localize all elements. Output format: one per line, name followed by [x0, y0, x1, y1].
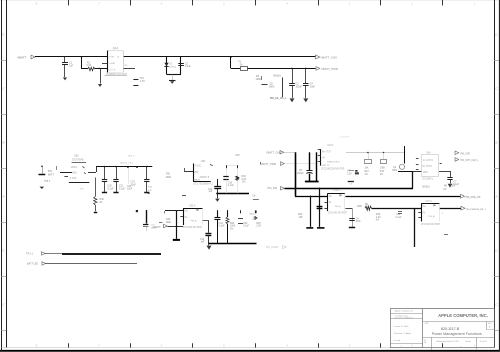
- svg-text:0.1uF: 0.1uF: [185, 66, 191, 68]
- svg-text:2K: 2K: [100, 201, 103, 204]
- svg-text:100uF: 100uF: [296, 86, 303, 88]
- svg-text:0.1uF: 0.1uF: [108, 188, 114, 190]
- svg-text:PWRON R 3: PWRON R 3: [327, 162, 340, 164]
- svg-text:U34: U34: [426, 151, 431, 154]
- svg-text:100K: 100K: [380, 168, 386, 170]
- svg-text:V+ OUT 8: V+ OUT 8: [423, 160, 434, 162]
- svg-text:10uF: 10uF: [355, 221, 361, 223]
- svg-text:0.1uF: 0.1uF: [243, 226, 249, 228]
- svg-text:LTC1540 NO POP: LTC1540 NO POP: [421, 224, 440, 226]
- svg-text:100K: 100K: [450, 186, 456, 188]
- svg-text:TP6 1: TP6 1: [44, 181, 51, 183]
- svg-text:Wednesday, May 26, 1999: Wednesday, May 26, 1999: [436, 341, 458, 343]
- svg-text:820-1117-B: 820-1117-B: [441, 327, 460, 331]
- svg-text:U36 A: U36 A: [334, 189, 341, 192]
- svg-text:10uF: 10uF: [127, 189, 133, 191]
- svg-text:1%: 1%: [380, 174, 383, 176]
- svg-text:PM_DIS: PM_DIS: [268, 186, 278, 190]
- svg-text:1uF: 1uF: [69, 64, 74, 67]
- svg-text:100K: 100K: [166, 176, 172, 179]
- svg-text:100K: 100K: [256, 78, 262, 81]
- svg-text:10K: 10K: [299, 216, 304, 219]
- svg-text:R45: R45: [256, 223, 261, 225]
- svg-text:VBATT_FILT: VBATT_FILT: [120, 162, 134, 165]
- svg-text:2.2K: 2.2K: [347, 173, 352, 175]
- svg-text:PM_AC_OK_L: PM_AC_OK_L: [270, 97, 287, 100]
- svg-text:U31: U31: [201, 160, 206, 163]
- svg-text:1uF: 1uF: [209, 191, 214, 193]
- svg-text:PM_OVP: PM_OVP: [461, 153, 471, 155]
- svg-text:A: A: [2, 195, 4, 199]
- svg-text:8 of 14: 8 of 14: [480, 341, 487, 343]
- svg-text:C10: C10: [396, 214, 401, 216]
- svg-text:1%: 1%: [376, 220, 379, 222]
- svg-text:BAS21: BAS21: [250, 213, 258, 216]
- svg-text:Apple Computer, Inc.: Apple Computer, Inc.: [395, 309, 414, 312]
- svg-text:C20: C20: [108, 186, 113, 188]
- svg-text:SHDN: SHDN: [194, 180, 201, 182]
- svg-text:A: A: [495, 195, 497, 199]
- svg-text:IN+ OUT: IN+ OUT: [322, 151, 332, 153]
- svg-text:C41: C41: [219, 223, 224, 225]
- svg-text:LTC1540 NO POP: LTC1540 NO POP: [183, 227, 202, 229]
- svg-text:IN-: IN-: [322, 158, 325, 160]
- svg-text:2.2K: 2.2K: [376, 217, 381, 219]
- svg-text:DS2760AE: DS2760AE: [72, 159, 84, 162]
- svg-text:IN-: IN-: [423, 212, 426, 214]
- svg-text:U37 A: U37 A: [426, 200, 433, 203]
- svg-text:10uF: 10uF: [131, 184, 137, 186]
- svg-text:1uF: 1uF: [201, 242, 206, 244]
- svg-text:BAS16: BAS16: [274, 75, 282, 78]
- svg-text:VBATT_CHG: VBATT_CHG: [321, 56, 338, 60]
- svg-text:VBATT: VBATT: [17, 56, 27, 60]
- svg-text:BATT LED: BATT LED: [27, 263, 38, 266]
- svg-text:IN- HYST: IN- HYST: [422, 166, 432, 168]
- svg-text:R12: R12: [365, 171, 370, 173]
- svg-text:0.1uF: 0.1uF: [228, 185, 234, 187]
- svg-text:IN-: IN-: [329, 202, 332, 204]
- svg-text:Checked: T. Apple: Checked: T. Apple: [394, 332, 412, 335]
- svg-text:U33 1: U33 1: [327, 145, 334, 147]
- svg-text:GND TP: GND TP: [321, 165, 330, 167]
- svg-text:VBATT_PWR: VBATT_PWR: [261, 162, 277, 166]
- svg-text:C21: C21: [119, 186, 124, 188]
- svg-text:C42: C42: [243, 223, 248, 225]
- svg-text:PM_CHG_OK: PM_CHG_OK: [466, 196, 481, 199]
- svg-text:3904: 3904: [392, 170, 398, 172]
- svg-text:1%: 1%: [252, 218, 255, 220]
- svg-text:C33: C33: [228, 182, 233, 184]
- svg-text:1%: 1%: [242, 181, 245, 183]
- svg-text:TP7 1: TP7 1: [128, 156, 135, 158]
- svg-text:PM_A: PM_A: [335, 205, 341, 208]
- svg-text:100uF: 100uF: [297, 173, 304, 175]
- svg-text:1%: 1%: [365, 174, 368, 176]
- svg-text:10K: 10K: [365, 168, 370, 170]
- svg-text:8 VSS: 8 VSS: [70, 178, 77, 180]
- svg-text:Cupertino, CA 95014: Cupertino, CA 95014: [394, 317, 413, 320]
- svg-text:VDD 1: VDD 1: [71, 167, 78, 169]
- svg-text:APPLE COMPUTER, INC.: APPLE COMPUTER, INC.: [438, 313, 488, 318]
- svg-text:1N5817 8: 1N5817 8: [199, 177, 210, 179]
- svg-text:0.1uF: 0.1uF: [219, 226, 225, 228]
- svg-text:C34 10uF: C34 10uF: [340, 137, 350, 139]
- svg-text:LTC1442 NO POP: LTC1442 NO POP: [328, 213, 347, 215]
- svg-text:0.1uF: 0.1uF: [396, 217, 402, 219]
- svg-text:SNS: SNS: [72, 173, 77, 175]
- svg-text:GND: GND: [423, 172, 428, 174]
- svg-text:5 6 7 8: 5 6 7 8: [109, 69, 116, 71]
- svg-text:Drawn: N. Hika: Drawn: N. Hika: [394, 325, 409, 328]
- svg-text:U30: U30: [74, 154, 79, 157]
- svg-text:TP A 1: TP A 1: [26, 253, 34, 256]
- svg-text:LTC1731EMS8-4.2: LTC1731EMS8-4.2: [193, 183, 213, 185]
- svg-text:BZX84: BZX84: [169, 67, 176, 69]
- svg-text:PM_A: PM_A: [429, 215, 435, 218]
- svg-text:Power Management Functions: Power Management Functions: [432, 332, 482, 336]
- svg-text:1%: 1%: [230, 228, 233, 230]
- svg-text:PM_OVP_CLR_L: PM_OVP_CLR_L: [461, 160, 480, 162]
- svg-text:VBATT: VBATT: [153, 225, 162, 229]
- svg-text:1.5V: 1.5V: [140, 80, 145, 83]
- svg-text:+5V: +5V: [235, 153, 240, 157]
- svg-text:2 GND: 2 GND: [109, 63, 116, 65]
- svg-text:100K: 100K: [357, 206, 363, 208]
- svg-text:3904: 3904: [269, 86, 275, 89]
- svg-text:R10: R10: [376, 214, 381, 216]
- svg-text:R43: R43: [230, 223, 235, 225]
- svg-text:R13: R13: [380, 171, 385, 173]
- svg-text:B: B: [2, 141, 4, 145]
- svg-text:B: B: [495, 141, 497, 145]
- svg-text:LTC1542CS8 NO POP: LTC1542CS8 NO POP: [321, 169, 345, 171]
- svg-text:100K: 100K: [230, 226, 236, 228]
- svg-text:IN-: IN-: [185, 217, 188, 219]
- svg-text:BATT: BATT: [48, 174, 54, 177]
- svg-text:1 VIN: 1 VIN: [109, 57, 115, 59]
- svg-text:100K: 100K: [166, 221, 172, 224]
- svg-text:Issued:: Issued:: [394, 340, 401, 342]
- svg-text:4 VCC: 4 VCC: [195, 166, 202, 168]
- svg-text:2.2K: 2.2K: [256, 226, 261, 228]
- svg-text:VBATT_PWR: VBATT_PWR: [321, 67, 338, 71]
- svg-text:PM_A: PM_A: [191, 220, 197, 223]
- svg-text:U32 A: U32 A: [189, 205, 196, 208]
- svg-text:BAT: BAT: [194, 171, 199, 174]
- svg-text:BAS16: BAS16: [423, 186, 431, 189]
- svg-text:10uF: 10uF: [310, 86, 316, 88]
- svg-text:VBATT_CHG: VBATT_CHG: [266, 151, 281, 155]
- svg-text:0.02: 0.02: [87, 64, 92, 67]
- svg-text:3A: 3A: [240, 63, 243, 66]
- svg-text:PM_PWRON_INT_L: PM_PWRON_INT_L: [466, 209, 487, 211]
- svg-text:Q4 A: Q4 A: [113, 47, 119, 50]
- svg-text:C23: C23: [131, 182, 136, 184]
- svg-text:LTC1540 L: LTC1540 L: [422, 179, 434, 181]
- svg-text:Sheet: Sheet: [465, 340, 471, 343]
- svg-text:PM_LOBAT: PM_LOBAT: [266, 246, 279, 249]
- svg-text:0.1uF: 0.1uF: [119, 188, 125, 190]
